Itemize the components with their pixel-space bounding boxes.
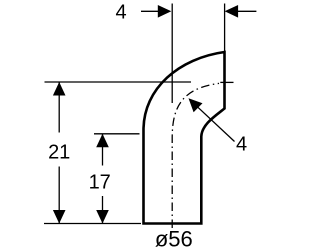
svg-text:ø56: ø56	[155, 227, 193, 250]
dimension 4 top: left arrow tail	[141, 10, 162, 12]
svg-text:21: 21	[48, 141, 70, 163]
extension line bottom y=223.5	[44, 223, 141, 225]
extension line y=82 (axis level)	[45, 81, 192, 83]
dimension 21: line upper segment	[58, 82, 60, 133]
svg-text:17: 17	[89, 171, 111, 193]
leader line for 4 (radius)	[193, 103, 235, 142]
dimension 21: top arrowhead	[53, 82, 66, 96]
dimension 21: bottom arrowhead	[53, 210, 66, 224]
pipe elbow outline	[144, 52, 225, 224]
dimension 17: bottom arrowhead	[96, 210, 109, 224]
dimension 4 top: right arrow tail	[238, 10, 256, 12]
extension line y=133.8 (17 top)	[94, 133, 140, 135]
dimension 17: line lower segment	[102, 196, 104, 224]
dimension 21: line lower segment	[58, 167, 60, 224]
extension line top left (x=172)	[171, 4, 173, 104]
dimension 17: line upper segment	[102, 134, 104, 166]
extension line top right (x=224.6)	[224, 4, 226, 53]
pipe centerline (dash-dot)	[172, 83, 219, 228]
leader arrowhead	[189, 98, 203, 112]
dimension 4 top: right arrowhead	[225, 5, 239, 18]
dimension 4 top: left arrowhead	[158, 5, 172, 18]
svg-text:4: 4	[236, 133, 247, 155]
svg-text:4: 4	[115, 2, 126, 24]
dimension 17: top arrowhead	[96, 134, 109, 148]
pipe centerline: end dash crossing outlet face	[220, 81, 233, 83]
